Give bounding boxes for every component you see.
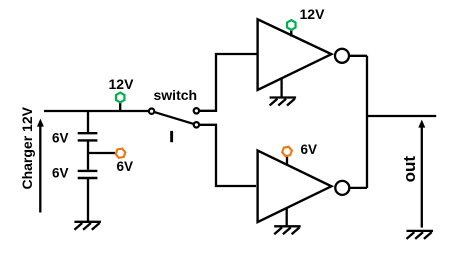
- switch throw contact lower: [194, 122, 199, 127]
- wire out horizontal: [367, 115, 436, 117]
- U2 output bubble: [335, 181, 349, 195]
- svg-text:12V: 12V: [109, 76, 135, 92]
- wire U2 ground stub: [286, 208, 288, 225]
- U1 power pin 12V (green hexagon): [287, 20, 296, 36]
- capacitor C2: [78, 171, 98, 178]
- node rail 12V (green hexagon): [116, 93, 125, 111]
- wire capacitor branch: [87, 111, 89, 132]
- svg-text:Charger 12V: Charger 12V: [19, 106, 35, 189]
- wire C2 to ground: [87, 179, 89, 221]
- switch blade: [155, 112, 193, 124]
- ground U1: [270, 98, 297, 106]
- node midpoint 6V (orange hexagon): [115, 148, 126, 158]
- svg-text:switch: switch: [154, 87, 198, 103]
- wire U1 output to bus: [350, 55, 367, 57]
- wire U1 ground stub: [280, 79, 282, 97]
- svg-text:12V: 12V: [300, 6, 326, 22]
- wire lower throw to U2 input: [200, 125, 256, 186]
- buffer U2 triangle: [258, 151, 332, 223]
- switch SW1: [149, 108, 199, 127]
- ground out: [407, 231, 434, 239]
- svg-text:6V: 6V: [52, 166, 69, 181]
- svg-text:6V: 6V: [301, 142, 318, 157]
- buffer U1 triangle: [258, 19, 332, 90]
- wire output bus vertical: [366, 56, 368, 188]
- wire midpoint tap: [88, 152, 115, 154]
- switch pole contact: [149, 109, 154, 114]
- wire U2 output to bus: [350, 187, 367, 189]
- capacitor C1: [78, 133, 98, 140]
- out arrow: [418, 120, 425, 228]
- svg-text:6V: 6V: [117, 159, 134, 174]
- wire between capacitors: [87, 142, 89, 170]
- wire main rail 12V: [44, 110, 149, 112]
- U2 power pin 6V (orange hexagon): [281, 146, 292, 165]
- svg-text:out: out: [400, 156, 419, 183]
- wire upper throw to U1 input: [200, 54, 257, 111]
- ground capacitor branch: [74, 222, 101, 230]
- ground U2: [274, 226, 301, 234]
- svg-text:6V: 6V: [52, 131, 69, 146]
- charger source arrow: [37, 119, 44, 213]
- U1 output bubble: [335, 49, 349, 63]
- label l: [170, 131, 173, 142]
- switch throw contact upper: [194, 108, 199, 113]
